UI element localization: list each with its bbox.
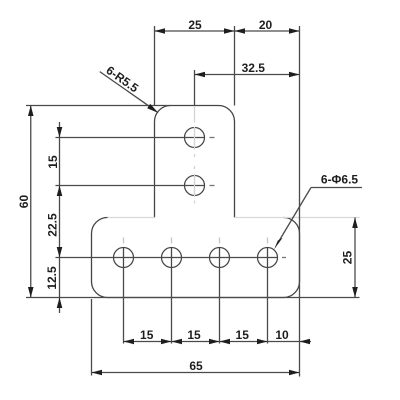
right dim 25 line: [354, 218, 356, 298]
svg-text:6-R5.5: 6-R5.5: [104, 63, 142, 95]
svg-text:12.5: 12.5: [45, 266, 59, 290]
centerline S1 horizontal: [56, 137, 215, 139]
svg-text:22.5: 22.5: [46, 213, 60, 237]
hole B3: [210, 248, 230, 268]
top edge left wing (gray): [108, 217, 155, 219]
hole S2: [185, 176, 205, 196]
top dimension extension lines: [155, 26, 300, 377]
dim 65 line: [92, 372, 300, 374]
centerline stem vertical (gray dash-dot): [194, 107, 196, 204]
hole S1: [185, 128, 205, 148]
leader 6-phi6.5: [311, 187, 362, 189]
svg-text:15: 15: [187, 328, 201, 342]
left edge extension down: [91, 299, 93, 376]
svg-text:25: 25: [188, 18, 202, 32]
plate outline stem: [155, 106, 235, 218]
svg-text:20: 20: [259, 18, 273, 32]
svg-text:10: 10: [275, 328, 289, 342]
svg-text:60: 60: [17, 195, 31, 209]
arrows top: [155, 28, 300, 34]
svg-text:15: 15: [236, 328, 250, 342]
hole B4: [258, 248, 278, 268]
svg-text:25: 25: [341, 251, 355, 265]
centerline bar holes horizontal: [56, 257, 287, 259]
left stacked dim line: [59, 122, 61, 313]
left extension line top: [26, 105, 171, 107]
bottom chain dim line: [124, 341, 312, 343]
bottom edge extended line: [26, 297, 360, 299]
svg-text:15: 15: [140, 328, 154, 342]
svg-text:6-Φ6.5: 6-Φ6.5: [321, 173, 359, 187]
extension lines below bar holes: [124, 248, 268, 344]
top edge right wing + extension to 25 dim (gray): [235, 217, 360, 219]
hole B1: [114, 248, 134, 268]
plate outline body: [92, 218, 300, 298]
centerline S2 horizontal: [56, 185, 215, 187]
dim 60 line: [30, 106, 32, 298]
svg-text:65: 65: [189, 359, 203, 373]
centerline dashes above bar holes (gray): [124, 238, 268, 244]
hole B2: [162, 248, 182, 268]
leader 6-R5.5: [100, 72, 150, 107]
svg-text:32.5: 32.5: [242, 61, 266, 75]
dim 32.5 line: [195, 74, 300, 76]
svg-text:15: 15: [46, 155, 60, 169]
dim 25 / 20 line: [155, 30, 300, 32]
